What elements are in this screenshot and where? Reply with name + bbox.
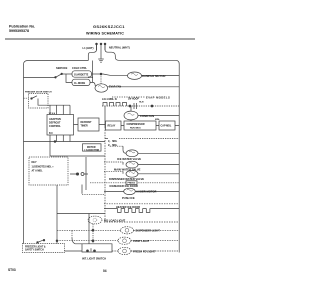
svg-text:I CAPACITOR: I CAPACITOR — [85, 149, 100, 152]
svg-text:CL-DIODE: CL-DIODE — [74, 83, 86, 85]
svg-text:SAFETY SWITCH: SAFETY SWITCH — [25, 249, 44, 252]
svg-text:L1 (HOT): L1 (HOT) — [83, 46, 94, 50]
svg-text:FREEZER LIGHT &: FREEZER LIGHT & — [25, 246, 46, 248]
svg-text:04: 04 — [103, 269, 107, 273]
svg-text:KEY: KEY — [32, 161, 37, 164]
svg-text:COMPRESSOR: COMPRESSOR — [127, 123, 145, 126]
svg-text:HEATER ICE DOOR: HEATER ICE DOOR — [116, 205, 140, 209]
svg-text:COND FAN: COND FAN — [140, 114, 154, 118]
svg-text:EVAP. FAN: EVAP. FAN — [109, 85, 121, 88]
svg-text:SERVICE: SERVICE — [56, 66, 68, 70]
svg-text:ICEMAKER ICE DOOR: ICEMAKER ICE DOOR — [110, 184, 138, 188]
svg-text:1) DENOTES MDL +: 1) DENOTES MDL + — [32, 166, 55, 169]
svg-text:CRSP LIGHT: CRSP LIGHT — [133, 239, 150, 243]
svg-text:GUARDETTE: GUARDETTE — [74, 74, 89, 77]
svg-text:WIRING SCHEMATIC: WIRING SCHEMATIC — [86, 32, 124, 36]
svg-text:FRESH FD LIGHT: FRESH FD LIGHT — [133, 249, 156, 253]
svg-text:2〉 MDL: 2〉 MDL — [108, 143, 118, 147]
svg-text:RELAY: RELAY — [108, 125, 116, 128]
svg-text:DISPENSER WATER VALVE: DISPENSER WATER VALVE — [109, 177, 144, 181]
svg-text:AUGER MOTOR: AUGER MOTOR — [136, 190, 156, 194]
svg-text:INT. LIGHT SWITCH: INT. LIGHT SWITCH — [82, 256, 106, 260]
svg-text:MAIN WATER VALVE: MAIN WATER VALVE — [114, 167, 141, 171]
svg-text:MDL: MDL — [155, 119, 160, 121]
svg-text:GS26KSZJCC1: GS26KSZJCC1 — [93, 24, 125, 29]
svg-text:1〉 MDL: 1〉 MDL — [108, 139, 118, 143]
svg-text:ICE WATER VALVE: ICE WATER VALVE — [117, 157, 141, 161]
svg-text:NO LOAD LIGHT: NO LOAD LIGHT — [104, 218, 126, 222]
svg-text:DISPENSER LIGHT: DISPENSER LIGHT — [136, 229, 161, 233]
svg-text:DEFROST: DEFROST — [81, 122, 93, 124]
svg-text:ST03: ST03 — [8, 268, 16, 272]
svg-text:EVAP MODELS: EVAP MODELS — [146, 96, 170, 100]
svg-text:NEUTRAL (WHT): NEUTRAL (WHT) — [109, 45, 130, 49]
svg-text:MOTOR: MOTOR — [87, 147, 96, 149]
svg-text:Publication No.: Publication No. — [9, 25, 35, 29]
svg-text:1P N 6: 1P N 6 — [49, 113, 56, 115]
svg-text:TIMER: TIMER — [81, 126, 88, 128]
svg-text:CONTROL: CONTROL — [49, 125, 61, 128]
svg-text:2N-HOOP: 2N-HOOP — [128, 97, 139, 100]
svg-text:B C: B C — [49, 133, 53, 135]
svg-text:DAMPER MOTOR: DAMPER MOTOR — [142, 74, 166, 78]
svg-text:FREEZER DOOR SWITCH: FREEZER DOOR SWITCH — [25, 92, 52, 94]
svg-text:HLN: HLN — [139, 102, 144, 104]
svg-text:5995395378: 5995395378 — [9, 29, 29, 33]
svg-text:CAP MDL: CAP MDL — [161, 125, 172, 128]
svg-text:PUSH ICE: PUSH ICE — [122, 196, 135, 200]
svg-text:COLD CTRL: COLD CTRL — [72, 66, 87, 70]
svg-text:MLA: MLA — [88, 76, 93, 79]
svg-text:AT A MDL: AT A MDL — [32, 169, 44, 172]
svg-text:LN-1 MDL N: LN-1 MDL N — [102, 97, 117, 101]
svg-text:RUN WDG: RUN WDG — [130, 127, 141, 129]
